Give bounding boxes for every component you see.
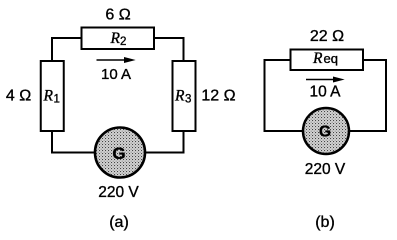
resistor R2 xyxy=(82,28,155,50)
svg-text:10 A: 10 A xyxy=(101,66,131,83)
svg-text:220 V: 220 V xyxy=(98,184,139,201)
resistor R3 xyxy=(173,61,196,131)
current arrow 10 A (b) xyxy=(306,77,345,83)
svg-text:R: R xyxy=(43,88,54,105)
svg-text:10 A: 10 A xyxy=(309,84,341,101)
svg-text:1: 1 xyxy=(54,94,60,106)
svg-text:R: R xyxy=(174,88,185,105)
wire Req right to generator (b) xyxy=(349,60,386,131)
svg-text:R: R xyxy=(110,30,121,47)
wire R1 bottom to generator (a) xyxy=(52,131,95,153)
svg-text:R: R xyxy=(312,50,323,67)
wire R2 left to R1 top xyxy=(52,38,81,60)
svg-text:G: G xyxy=(319,124,331,141)
wire Req left to generator (b) xyxy=(265,60,304,131)
svg-text:12 Ω: 12 Ω xyxy=(201,88,235,105)
svg-text:2: 2 xyxy=(120,36,126,48)
svg-text:22 Ω: 22 Ω xyxy=(310,28,344,45)
svg-text:G: G xyxy=(112,144,125,163)
generator G (a) xyxy=(95,128,145,178)
svg-text:3: 3 xyxy=(185,94,191,106)
wire R3 bottom to generator (a) xyxy=(145,131,184,153)
resistor R1 xyxy=(41,61,64,131)
wire R2 right to R3 top xyxy=(154,38,184,61)
svg-text:(b): (b) xyxy=(315,214,335,231)
svg-text:eq: eq xyxy=(324,51,338,66)
generator G (b) xyxy=(303,108,349,154)
svg-text:4 Ω: 4 Ω xyxy=(6,88,31,105)
svg-text:6 Ω: 6 Ω xyxy=(105,7,130,24)
resistor Req xyxy=(291,50,364,71)
svg-text:(a): (a) xyxy=(109,214,129,231)
current arrow 10 A (a) xyxy=(97,57,136,63)
svg-text:220 V: 220 V xyxy=(305,161,346,178)
